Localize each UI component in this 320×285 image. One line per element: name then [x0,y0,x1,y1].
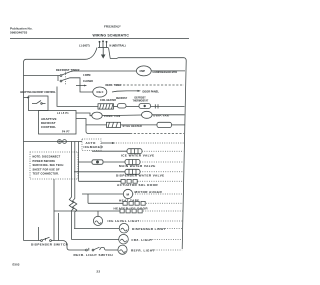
svg-text:DEF: DEF [97,90,104,94]
svg-text:ICEMAKER: ICEMAKER [84,145,104,149]
wire [121,124,158,126]
arrow to door panel [112,91,138,92]
auger motor rung [82,193,123,195]
main water valve coil [125,160,140,165]
note box dashed [30,152,78,179]
svg-text:THERMOSTAT: THERMOSTAT [133,100,149,103]
wire compressor to right rail [151,70,185,72]
svg-text:P4 P7: P4 P7 [62,131,70,134]
ice water valve rung [92,150,127,153]
actuator solenoid rung [79,180,122,182]
ice door connector pins [120,209,142,213]
wire feeder B [78,142,80,182]
svg-text:E503: E503 [13,262,20,266]
svg-text:NOTE: DISCONNECT: NOTE: DISCONNECT [33,156,61,159]
svg-text:M: M [127,192,130,196]
dispenser light lamp [119,223,129,233]
refr light lamp [118,245,127,254]
wire defrost heater rung [57,87,98,107]
svg-text:ACTUATOR SOL DOOR: ACTUATOR SOL DOOR [117,183,158,187]
svg-text:HEATER ICE DOOR: HEATER ICE DOOR [114,206,149,210]
connector pair [58,140,67,144]
svg-text:CMP: CMP [140,70,146,73]
refr light switch [86,247,105,251]
svg-text:TEST CONNECTOR.: TEST CONNECTOR. [33,173,60,176]
ice water valve coil [127,149,142,154]
svg-text:POWER BEFORE: POWER BEFORE [33,160,56,163]
wire feeder A [73,142,77,229]
vertical mid [58,213,60,241]
svg-text:REFR. LIGHT SWITCH: REFR. LIGHT SWITCH [74,253,114,257]
svg-text:DISPENSER WATER VALVE: DISPENSER WATER VALVE [116,174,165,178]
svg-text:CONTROL: CONTROL [41,125,56,129]
drain heater rect [107,122,121,127]
defrost thermostat [139,104,151,109]
wire [152,114,184,116]
wire down from mullion rung to cabinet line [86,125,130,134]
svg-text:STILE HEATER: STILE HEATER [123,125,143,128]
svg-text:L1 (HOT): L1 (HOT) [79,45,90,48]
dispenser valve coil [125,169,140,174]
wire [102,114,141,117]
svg-text:MOTOR AUGER: MOTOR AUGER [135,190,163,194]
defrost relay box [29,96,49,111]
defrost timer contact upper [24,72,71,82]
svg-text:DISPENSER SWITCH: DISPENSER SWITCH [31,243,68,247]
svg-text:L2 L5 P1: L2 L5 P1 [57,112,69,115]
arrow from icemaker [101,142,112,144]
arrow into defrost relay box [24,97,28,99]
svg-text:COMPRESSOR MTR: COMPRESSOR MTR [153,70,178,74]
coil heater element hatched [98,104,114,109]
wire lower contact to timer motor [70,78,93,92]
cabinet dashed boundary middle [130,133,184,135]
svg-text:CLOSED: CLOSED [83,80,93,83]
wire L1 from plug to left rail [24,48,98,241]
svg-text:ICE WATER VALVE: ICE WATER VALVE [121,154,155,158]
svg-text:MAIN WATER VALVE: MAIN WATER VALVE [119,164,156,168]
power plug prongs [98,41,108,48]
svg-text:ADAPTIVE DEFROST CONTROL: ADAPTIVE DEFROST CONTROL [20,91,56,94]
ground arrow of supply cord [102,48,104,55]
svg-text:DEFROST TIMER: DEFROST TIMER [56,68,80,72]
wire feeder C [69,142,73,240]
level light lamp [97,211,99,216]
actuator connector pins [121,179,137,183]
svg-text:SHEET FOR USE OF: SHEET FOR USE OF [33,168,60,171]
wire [151,105,185,107]
wire [105,249,118,251]
wire [114,105,118,107]
svg-text:SERVICING. SEE TECH: SERVICING. SEE TECH [33,164,64,167]
svg-text:N (NEUTRAL): N (NEUTRAL) [110,45,126,48]
svg-text:WIRING SCHEMATIC: WIRING SCHEMATIC [93,33,130,37]
compressor motor circle [136,66,151,76]
evaporator fan motor [142,111,153,118]
header rule [10,38,189,40]
svg-text:DOOR PANEL: DOOR PANEL [143,91,160,94]
svg-text:22: 22 [97,270,101,274]
wire [172,124,185,126]
wire dotted to rail [142,150,184,152]
auto icemaker box dashed [82,139,101,151]
svg-text:DEFR. TIMER: DEFR. TIMER [106,84,122,87]
main water valve rung [79,161,93,163]
svg-text:REFR. LIGHT: REFR. LIGHT [131,248,155,252]
wire to refr light rung [51,241,85,251]
water valve coil with dot [92,160,103,165]
dispenser light rung [74,228,119,230]
cabinet dashed boundary top [123,84,184,86]
auger motor [123,189,132,198]
freezer light rung [72,239,119,241]
vertical from note box [53,179,55,241]
svg-text:ICE LEVEL LIGHT: ICE LEVEL LIGHT [108,219,140,223]
vertical short [38,227,40,241]
pin stub to condenser fan [76,113,92,116]
svg-text:4 RPM: 4 RPM [83,74,90,77]
defrost timer motor [93,87,107,97]
svg-text:DISPENSER LIGHT: DISPENSER LIGHT [132,227,166,231]
heat tape connector pins [123,201,145,205]
svg-text:FRZ. LIGHT: FRZ. LIGHT [132,238,153,242]
adaptive defrost control box [39,111,77,135]
timer mechanical linkage dashed [65,70,67,86]
dispenser switch rung [24,240,41,242]
wire to compressor [70,70,136,73]
freezer light lamp [119,234,129,244]
wire N from plug to right rail [109,48,187,250]
svg-text:FRS26ZNJ*: FRS26ZNJ* [104,25,121,29]
icemaker feed rung [24,141,83,143]
condenser fan motor [92,112,102,119]
svg-text:DEFROST: DEFROST [116,98,128,100]
svg-text:5995346753: 5995346753 [10,31,27,35]
dashed wire to rail [116,142,184,144]
mullion heater element [157,122,172,127]
dispenser water valve rung [74,171,125,173]
pin stub to mullion heater [76,119,107,125]
svg-text:COIL HEATER: COIL HEATER [100,99,116,102]
svg-text:DEFROST: DEFROST [135,98,147,100]
